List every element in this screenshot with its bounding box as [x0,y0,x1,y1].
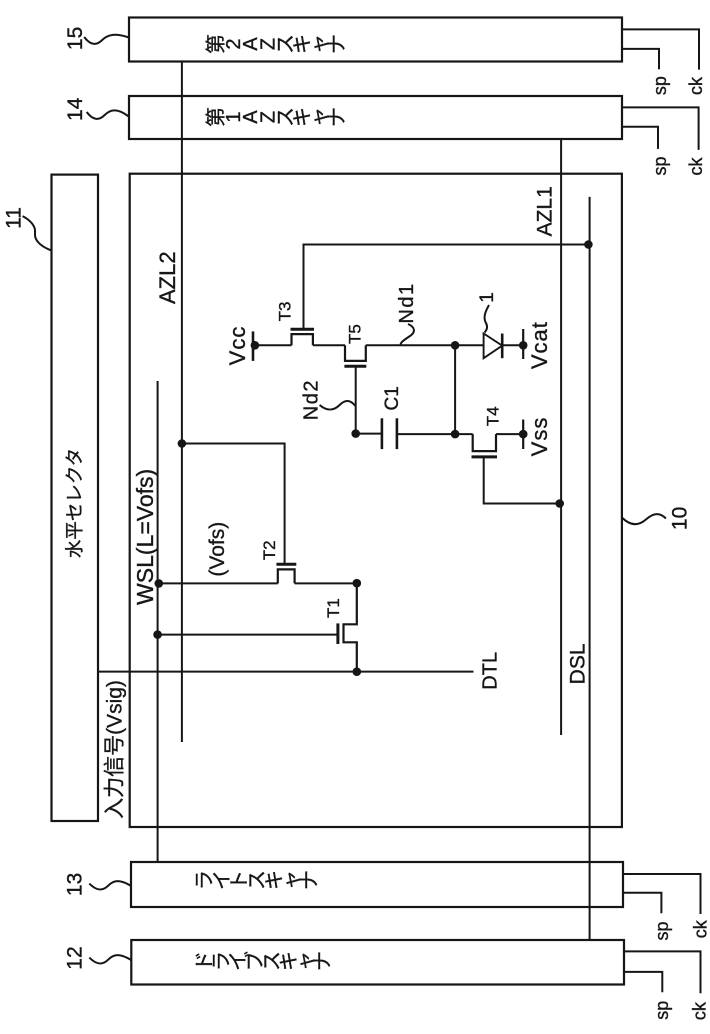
wire sp stub of block 12 [624,972,662,992]
node on AZL1 line [555,499,564,508]
pixel circuit box (10) [130,174,622,827]
svg-text:sp: sp [650,76,670,95]
wire DSL vertical line [589,197,591,940]
svg-text:T1: T1 [324,598,343,618]
svg-text:ck: ck [690,1001,710,1020]
wire AZL2 to T2 gate [182,444,285,564]
svg-text:Vcc: Vcc [225,326,250,366]
leader squiggle 14 [87,110,130,118]
wire ck stub of block 15 [622,29,699,69]
diode OLED cathode bar [501,334,504,359]
node Vcat [519,341,528,350]
wire WSL vertical line [157,381,159,862]
node on WSL line at T1 row [153,630,162,639]
transistor T1 gate bar [336,623,339,644]
svg-text:10: 10 [669,507,692,530]
svg-text:Nd2: Nd2 [301,379,323,420]
svg-text:ナ: ナ [299,870,321,890]
svg-text:C1: C1 [382,386,403,410]
leader squiggle 11 [23,216,52,250]
svg-text:sp: sp [650,156,670,175]
svg-text:Vss: Vss [527,417,552,457]
transistor T3 channel [292,334,313,345]
wire sp stub of block 13 [623,893,661,914]
supply Vss terminal [522,420,524,450]
block label ドライブスキャナ [194,951,334,971]
svg-text:15: 15 [64,27,87,50]
block label ライトスキャナ [194,870,321,890]
wire sp stub of block 15 [622,49,659,69]
wire Vcc to T3 [253,344,292,346]
wire DTL horizontal line [98,671,474,673]
transistor T4 gate bar [472,455,498,458]
block ライトスキャナ (13) [131,862,623,907]
svg-text:sp: sp [652,921,672,940]
wire Nd1 rail [366,344,484,346]
block label 第2AZスキャナ [205,34,349,54]
leader squiggle 12 [89,955,131,963]
wire C1 to T4 [397,433,473,435]
transistor T5 channel [345,345,366,361]
svg-text:ナ: ナ [327,34,349,54]
leader squiggle 1 [485,305,490,333]
svg-text:ck: ck [686,157,706,176]
supply Vcat terminal [522,329,524,359]
svg-text:12: 12 [64,946,87,969]
svg-text:ck: ck [691,919,710,938]
block 第2AZスキャナ (15) [129,18,622,62]
svg-text:T2: T2 [260,540,279,560]
supply Vcc terminal [252,331,255,361]
node Nd2 at T2 row [353,579,362,588]
block 第1AZスキャナ (14) [129,96,622,139]
leader squiggle Nd2 [320,401,356,410]
node on DTL line [353,667,362,676]
block label 第1AZスキャナ [205,107,349,127]
transistor T4 channel [473,434,496,451]
leader squiggle 13 [89,881,131,889]
svg-text:Nd1: Nd1 [396,282,418,323]
svg-text:DSL: DSL [567,643,590,684]
svg-text:ナ: ナ [327,107,349,127]
node on DSL line [584,240,593,249]
svg-text:13: 13 [64,873,87,896]
node Vcc [251,341,260,350]
wire sp stub of block 14 [622,127,658,149]
node on WSL line at T2 row [155,579,164,588]
wire T5 gate lead to Nd2 [355,366,357,433]
svg-text:T4: T4 [484,406,503,426]
block ドライブスキャナ (12) [131,940,624,985]
svg-text:水平セレクタ: 水平セレクタ [64,448,85,558]
wire T2 to Nd2 line [295,582,357,584]
wire ck stub of block 14 [622,107,699,149]
wire Nd1 down to T4 row [454,345,456,434]
svg-text:DTL: DTL [480,652,502,690]
svg-text:1: 1 [477,292,498,303]
node Nd1 junction [451,341,460,350]
svg-text:ナ: ナ [312,951,334,971]
svg-text:11: 11 [2,207,25,229]
wire ck stub of block 12 [624,951,701,993]
capacitor C1 right plate [396,418,399,449]
wire diode to Vcat [502,344,523,346]
svg-text:WSL(L=Vofs): WSL(L=Vofs) [132,469,158,605]
svg-text:AZL1: AZL1 [533,186,556,236]
node T4 left junction [451,430,460,439]
wire T4 gate to AZL1 [484,457,560,504]
transistor T1 channel [344,583,357,672]
wire T4 to Vss [496,433,523,435]
wire Nd2 to C1 [356,433,382,435]
leader squiggle 15 [84,35,129,44]
wire T3 to T5 [313,344,345,346]
transistor T2 channel [278,569,295,583]
wire WSL to T1 gate [158,634,338,636]
svg-text:ck: ck [686,76,706,95]
node on AZL2 line [178,439,187,448]
wire ck stub of block 13 [623,874,701,914]
diode OLED element 1 triangle [484,334,503,359]
node Vss [519,430,528,439]
svg-text:AZL2: AZL2 [155,251,180,304]
svg-text:T3: T3 [275,301,294,321]
capacitor C1 left plate [381,418,384,449]
leader squiggle Nd1 [401,324,414,345]
wire AZL2 vertical line [181,62,183,742]
svg-text:sp: sp [652,1001,672,1020]
svg-text:14: 14 [64,97,87,121]
svg-text:T5: T5 [346,324,365,344]
transistor T3 gate bar [291,328,315,331]
svg-text:入力信号(Vsig): 入力信号(Vsig) [104,680,127,819]
node Nd2 at C1 [351,429,360,438]
svg-text:(Vofs): (Vofs) [206,522,229,577]
wire AZL1 vertical line [560,139,562,735]
svg-text:Vcat: Vcat [527,321,552,369]
wire WSL to T2 [159,582,278,584]
block 水平セレクタ (11) [52,175,99,821]
transistor T5 gate bar [344,365,366,368]
wire DSL to T3 gate [304,245,589,330]
transistor T2 gate bar [276,563,296,566]
leader squiggle 10 [622,514,666,524]
